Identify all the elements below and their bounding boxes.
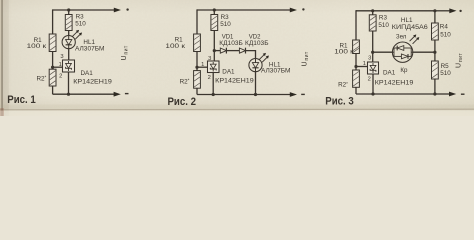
light arrows of HL1 circuit 2 [259,53,269,62]
wire: R3 to cathode node circuit 3 [372,31,374,52]
diode VD1 (КД103Б) [220,48,226,54]
wire: R3 top lead circuit 3 [372,11,374,15]
node: circuit-3 R4/R5/HL1 junction [433,51,436,54]
svg-text:R3: R3 [221,14,230,21]
wire: circuit-2 bottom rail to output arrow [256,92,298,97]
terminal: circuit-3 plus output dot [459,10,461,12]
wire: R3 to cathode node circuit 2 [213,31,215,51]
wire: circuit-1 left rail middle segment [52,52,54,70]
wire: node to VD1 anode [214,50,220,52]
svg-text:3: 3 [368,56,371,62]
wire: HL1 to DA1 pin 3 [68,49,70,60]
svg-text:1: 1 [201,62,204,68]
wire: circuit-1 top rail [53,9,69,11]
svg-text:510: 510 [440,70,451,77]
svg-text:510: 510 [440,32,451,39]
net label Uпит circuit 2 [302,51,310,66]
wire: HL1 right lead to R4/R5 node [413,51,435,53]
node: circuit-1 top junction of R3 [67,8,70,11]
svg-text:DA1: DA1 [81,70,94,77]
wire: DA1 pin 3 lead circuit 3 [372,52,374,62]
svg-text:Кр: Кр [400,67,408,74]
svg-text:2: 2 [59,73,62,79]
terminal: circuit-3 minus output dash [461,94,465,95]
resistor R3 (510) circuit 3 [369,15,376,31]
svg-text:1: 1 [59,62,62,68]
wire: circuit-1 bottom rail [53,93,69,95]
svg-text:КР142ЕН19: КР142ЕН19 [215,77,254,84]
wire: R3 top lead circuit 2 [213,10,215,15]
wire: circuit-2 top rail to output arrow [214,8,297,13]
voltage regulator DA1 (КР142ЕН19) circuit 2 [208,61,220,73]
wire: VD2 to HL1 bend [246,51,256,59]
wire: circuit-3 top rail to output arrow [435,8,457,13]
svg-text:2: 2 [208,75,211,81]
wire: DA1 pin 2 to bottom rail circuit 2 [212,73,214,95]
svg-text:Зел: Зел [396,34,407,40]
node: circuit-3 cathode node (R3 / HL1 / DA1 pin 3) [371,51,374,54]
wire: circuit-2 left rail middle segment [196,52,198,71]
svg-text:100 к: 100 к [165,43,185,50]
wire: circuit-3 bottom rail to output arrow [435,92,456,97]
svg-text:3: 3 [60,54,63,60]
voltage regulator DA1 (КР142ЕН19) circuit 3 [368,62,379,74]
svg-text:КД103Б: КД103Б [245,41,269,47]
wire: HL1 to bottom rail circuit 2 [255,72,257,95]
svg-text:2: 2 [368,76,371,82]
svg-text:DA1: DA1 [383,69,396,76]
svg-text:Рис. 3: Рис. 3 [325,95,354,107]
wire: R3 top lead [68,10,70,15]
node: circuit-3 top junction of R4 [433,9,436,12]
wire: R4 to node [434,40,436,52]
wire: circuit-1 bottom rail to output arrow [69,92,121,97]
voltage regulator DA1 (КР142ЕН19) [63,60,75,72]
resistor R2* circuit 3 [353,70,360,87]
resistor R1 (100 к) circuit 2 [194,34,201,52]
diode VD2 (КД103Б) [239,48,245,54]
svg-text:VD1: VD1 [222,34,234,40]
resistor R4 (510) [432,23,439,40]
wire: R3 to HL1 [68,31,70,36]
node: circuit-3 top junction of R3 [371,9,374,12]
wire: node to HL1 left lead circuit 3 [373,51,393,53]
svg-text:HL1: HL1 [401,17,413,24]
node: DA1 pin 2 junction on bottom rail circuit 2 [212,93,215,96]
svg-text:АЛ307БМ: АЛ307БМ [75,46,105,52]
svg-text:R3: R3 [76,13,85,20]
bottom crease line [0,105,474,117]
wire: R4 top lead [434,11,436,23]
svg-text:КИПД45А6: КИПД45А6 [392,25,429,31]
wire: DA1 pin 1 lead circuit 2 [197,66,208,68]
LED HL1 (АЛ307БМ) [62,36,75,49]
svg-text:VD2: VD2 [249,34,261,40]
svg-text:DA1: DA1 [222,69,235,76]
terminal: circuit-2 plus output dot [302,8,304,10]
LED HL1 (АЛ307БМ) circuit 2 [249,59,262,72]
svg-text:510: 510 [220,21,231,28]
wire: DA1 pin 3 lead circuit 2 [213,51,215,61]
resistor R3 (510) circuit 2 [211,15,218,31]
svg-text:R3: R3 [379,14,388,21]
wire: VD1 to VD2 [226,50,239,52]
svg-text:HL1: HL1 [269,61,281,68]
node: circuit-2 top junction of R3 [213,8,216,11]
wire: DA1 pin 1 lead circuit 3 [356,66,368,68]
svg-text:КР142ЕН19: КР142ЕН19 [375,80,414,87]
wire: circuit-3 left rail middle segment [355,54,357,71]
node: circuit-3 divider junction to DA1 pin 1 [354,65,357,68]
svg-text:1: 1 [363,61,366,67]
svg-text:100 к: 100 к [27,43,47,50]
wire: DA1 pin 1 lead [53,66,63,68]
node: HL1 junction on bottom rail circuit 2 [254,93,257,96]
wire: DA1 pin 2 to bottom rail circuit 3 [372,74,374,94]
resistor R1 (100 к) circuit 3 [353,40,360,54]
resistor R1 (100 к) [49,34,56,52]
wire: circuit-3 bottom rail [356,93,435,95]
svg-text:510: 510 [75,20,86,27]
svg-text:АЛ307БМ: АЛ307БМ [261,69,291,75]
node: circuit-1 divider junction to DA1 pin 1 [51,66,54,69]
resistor R5 (510) [432,61,439,79]
wire: circuit-3 left rail lower segment [355,87,357,94]
wire: DA1 pin 2 to bottom rail [68,72,70,94]
resistor R2* [49,69,56,86]
node: DA1 pin 2 junction on bottom rail [67,93,70,96]
terminal: circuit-1 plus output dot [126,8,128,10]
light arrows of HL1 [72,30,82,39]
wire: circuit-2 left rail upper segment [196,9,198,34]
svg-text:Рис. 2: Рис. 2 [167,96,196,108]
wire: circuit-3 top rail [356,10,435,12]
svg-text:Рис. 1: Рис. 1 [7,94,36,106]
svg-text:HL1: HL1 [83,39,95,46]
resistor R3 (510) [65,15,72,31]
node: circuit-2 cathode node (R3 / VD1 / DA1 pin 3) [213,49,216,52]
net label Uпит circuit 1 [121,45,129,60]
left page-edge shadow [0,0,9,116]
wire: circuit-1 top rail to output arrow [69,8,121,13]
svg-text:КР142ЕН19: КР142ЕН19 [73,79,112,86]
wire: circuit-2 bottom rail [197,94,256,96]
svg-text:100 к: 100 к [334,48,354,55]
svg-text:R4: R4 [440,24,449,31]
node: R5 junction on bottom rail [433,92,436,95]
wire: circuit-3 left rail upper segment [355,10,357,40]
resistor R2* circuit 2 [194,71,201,89]
terminal: circuit-2 minus output dash [301,94,305,95]
wire: circuit-2 left rail lower segment [196,88,198,94]
light arrows of HL1 circuit 3 [410,35,420,44]
node: DA1 pin 2 junction on bottom rail circuit 3 [371,92,374,95]
bicolor LED HL1 (КИПД45А6) [392,42,412,62]
wire: circuit-1 left rail lower segment [52,86,54,94]
terminal: circuit-1 minus output dash [125,93,129,94]
wire: node to R5 [434,52,436,61]
node: circuit-2 divider junction to DA1 pin 1 [195,66,198,69]
net label Uпит circuit 3 [456,53,464,68]
wire: circuit-1 left rail upper segment [52,9,54,34]
svg-text:510: 510 [378,22,389,29]
svg-text:КД103Б: КД103Б [219,41,243,47]
wire: circuit-2 top rail [197,9,214,11]
wire: R5 to bottom rail [434,79,436,94]
